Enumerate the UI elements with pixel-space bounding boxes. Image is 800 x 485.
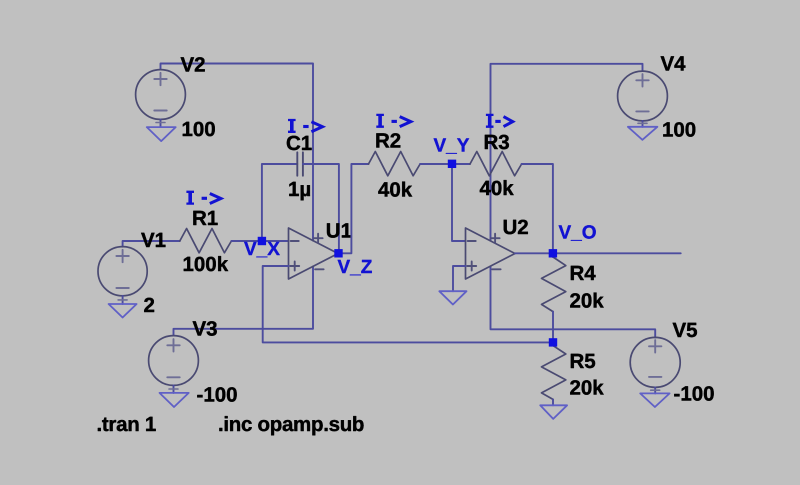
svg-text:-100: -100 (197, 384, 238, 407)
V5 pin tick (651, 389, 660, 391)
junction node V_Y (448, 160, 456, 168)
svg-text:40k: 40k (378, 179, 413, 202)
V3 pin tick (169, 388, 178, 390)
wire V4 bottom stub (642, 121, 644, 127)
wire V5 bottom stub (654, 387, 656, 393)
svg-text:100k: 100k (183, 253, 229, 276)
junction node R4/R5 (549, 338, 557, 346)
op-amp U2 (466, 228, 516, 279)
svg-text:V3: V3 (193, 318, 218, 341)
U1 V- supply marker (315, 268, 324, 270)
resistor R1 (180, 229, 232, 253)
wire R3 right lead down to output node V_O (522, 164, 553, 253)
svg-text:V_O: V_O (559, 223, 597, 244)
junction node V_Z (334, 249, 342, 257)
V2 plus marker (154, 73, 166, 85)
svg-text:R1: R1 (192, 207, 218, 230)
resistor R2 (369, 152, 421, 176)
voltage source V5 (630, 337, 680, 387)
U2 V+ supply marker (491, 234, 500, 243)
wire node V_Y down to U2 inverting input (452, 164, 466, 241)
wire R2 to node V_Y to R3 (420, 163, 470, 165)
wire V2 bottom stub (160, 119, 162, 127)
wire V2 top rail to U1 V+ pin (161, 64, 314, 241)
svg-text:V_Y: V_Y (434, 136, 470, 157)
voltage source V1 (98, 247, 147, 296)
svg-text:20k: 20k (570, 377, 605, 400)
svg-text:R2: R2 (375, 130, 401, 153)
svg-text:V4: V4 (661, 53, 687, 76)
wire V1 bottom stub (122, 296, 124, 304)
svg-text:20k: 20k (570, 290, 605, 313)
svg-text:100: 100 (662, 118, 696, 141)
ground under R5 (540, 405, 567, 419)
U2 non-inverting input marker (467, 262, 476, 271)
current arrow label I -> of R1 (186, 192, 194, 204)
ground under V5 (640, 393, 669, 407)
ground at U2 non-inverting input (439, 291, 466, 304)
U1 V+ supply marker (314, 234, 323, 243)
svg-text:-100: -100 (674, 383, 715, 406)
V1 pin tick (118, 299, 127, 301)
svg-text:V1: V1 (141, 229, 166, 252)
svg-text:R4: R4 (570, 262, 597, 285)
V2 pin tick (156, 122, 165, 124)
svg-text:C1: C1 (286, 132, 312, 155)
wire R4 to junction (552, 312, 554, 343)
V4 plus marker (636, 74, 648, 86)
U2 V- supply marker (492, 268, 501, 270)
svg-text:V_Z: V_Z (338, 257, 373, 278)
wire U2 output V_O (515, 252, 681, 254)
wire R1 to U1 inverting input (231, 240, 288, 242)
wire U1 output jog to R2 (339, 164, 369, 253)
svg-text:V2: V2 (181, 54, 206, 77)
wire C1 right plate down to node V_Z (303, 164, 339, 253)
resistor R4 (542, 257, 566, 312)
svg-text:.inc opamp.sub: .inc opamp.sub (218, 413, 364, 436)
U1 inverting input marker (291, 240, 299, 242)
V5 plus marker (649, 340, 661, 352)
V5 minus marker (649, 376, 661, 378)
V3 minus marker (167, 376, 179, 378)
ground under V4 (628, 127, 658, 140)
wire V_O node down to R4 (552, 253, 554, 257)
wire V1 to R1 (123, 241, 180, 247)
wire V3 bottom stub (173, 385, 175, 393)
wire U1 non-inverting input feedback to R4/R5 junction (263, 266, 553, 342)
wire V5 rail to U2 V- pin (491, 266, 656, 337)
svg-text:R5: R5 (570, 350, 596, 373)
wire V4 top rail to U2 V+ pin (491, 64, 643, 241)
resistor R3 (470, 152, 522, 176)
current arrow label I -> of R2 (376, 115, 384, 127)
svg-text:1µ: 1µ (288, 178, 311, 201)
resistor R5 (542, 346, 566, 400)
junction node V_O (549, 249, 557, 257)
voltage source V3 (149, 336, 199, 386)
svg-text:U1: U1 (326, 220, 352, 243)
svg-text:V5: V5 (673, 319, 698, 342)
current arrow label I -> of C1 (288, 120, 296, 132)
junction node V_X (258, 237, 266, 245)
V4 pin tick (638, 122, 647, 124)
wire U2 non-inverting input to ground (453, 266, 466, 291)
wire R5 bottom lead (552, 399, 554, 405)
svg-text:2: 2 (144, 294, 155, 317)
svg-text:R3: R3 (484, 131, 510, 154)
svg-text:U2: U2 (503, 216, 529, 239)
voltage source V4 (618, 71, 668, 121)
V1 minus marker (116, 287, 128, 289)
svg-text:100: 100 (182, 118, 216, 141)
current arrow label I-> of R3 (486, 115, 494, 127)
V3 plus marker (167, 339, 179, 351)
ground under V1 (109, 304, 137, 318)
U1 non-inverting input marker (290, 262, 299, 271)
voltage source V2 (136, 70, 186, 120)
svg-text:.tran 1: .tran 1 (97, 413, 156, 436)
V4 minus marker (636, 110, 648, 112)
U2 inverting input marker (468, 240, 476, 242)
wire node V_X up to C1 left plate (262, 164, 297, 241)
ground under V2 (147, 127, 176, 141)
V1 plus marker (116, 250, 128, 262)
op-amp U1 (289, 228, 339, 279)
svg-text:V_X: V_X (244, 239, 280, 260)
svg-text:40k: 40k (480, 177, 515, 200)
capacitor C1 (297, 152, 303, 175)
wire V3 rail to U1 V- pin (174, 266, 314, 335)
ground under V3 (160, 393, 189, 407)
V2 minus marker (154, 110, 166, 112)
